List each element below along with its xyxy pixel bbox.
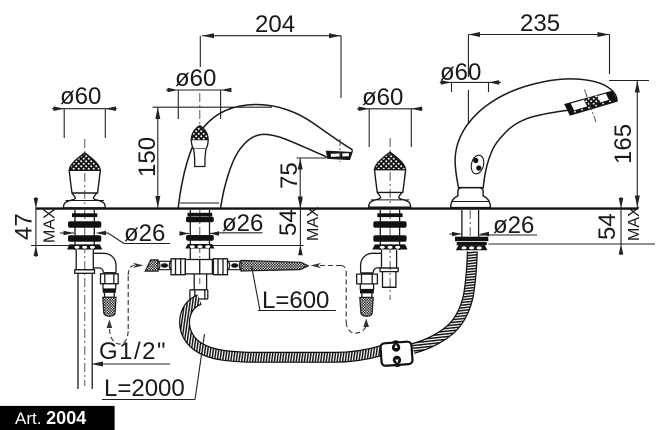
dimension 150 — [134, 107, 272, 208]
deck line — [36, 207, 639, 209]
svg-text:235: 235 — [520, 10, 560, 37]
handle H1 center line — [84, 139, 86, 386]
handle H1 elbow — [93, 253, 116, 272]
dimension 54 MAX right — [489, 197, 656, 255]
dimension 47 MAX — [11, 197, 73, 257]
assembly arrow handle H1 tail — [107, 263, 144, 344]
spout diverter knob — [191, 126, 208, 167]
hand shower base — [451, 188, 491, 208]
dia26 label hand shower — [450, 212, 538, 239]
assembly arrow hose L600 — [311, 263, 370, 333]
svg-text:MAX: MAX — [626, 206, 643, 241]
handle H1 braided tail — [103, 297, 116, 316]
spout bottom outlet tube — [190, 274, 208, 299]
hose weight — [380, 339, 413, 368]
handle H2 shank stack — [372, 210, 407, 250]
svg-text:MAX: MAX — [305, 206, 322, 241]
spout tee body — [171, 259, 228, 275]
spout shank stack — [185, 210, 214, 260]
svg-text:Art. 2004: Art. 2004 — [15, 408, 86, 428]
handle H1 valve body and supply tube — [75, 250, 95, 389]
handle H2 — [369, 152, 411, 207]
inlet hose stub — [145, 260, 158, 271]
article number box — [0, 406, 115, 430]
dimension 75 — [276, 158, 326, 208]
dimension 235 — [468, 10, 609, 186]
dia26 label handle H1 — [60, 220, 170, 247]
label G1/2 — [91, 338, 170, 367]
handle H2 center line — [389, 138, 391, 300]
dia26 label spout — [180, 210, 264, 237]
handle H2 elbow union nut — [357, 274, 378, 297]
handle H2 braided tail — [360, 298, 373, 317]
hand shower collar ring — [469, 154, 485, 175]
svg-text:MAX: MAX — [42, 208, 59, 243]
svg-text:54: 54 — [275, 209, 302, 236]
svg-text:165: 165 — [610, 124, 637, 164]
svg-text:ø60: ø60 — [175, 65, 216, 92]
svg-text:ø60: ø60 — [60, 83, 101, 110]
svg-text:L=2000: L=2000 — [104, 375, 185, 402]
svg-text:150: 150 — [134, 137, 161, 177]
braided hose L600 — [241, 260, 308, 271]
spout tee left connector — [158, 261, 171, 269]
shower hose L2000 — [185, 252, 473, 358]
dimension 165 — [609, 81, 649, 208]
spout center line — [199, 93, 201, 284]
handle H1 shank stack — [67, 210, 102, 250]
label L600 — [252, 266, 337, 314]
spout body — [178, 104, 352, 207]
svg-text:47: 47 — [11, 213, 38, 240]
svg-text:ø60: ø60 — [362, 84, 403, 111]
dia60 label handle H2 — [357, 84, 423, 147]
dimension 54 MAX center — [212, 198, 322, 255]
hand shower body — [455, 79, 617, 188]
handle H1 — [63, 153, 105, 208]
spout outlet aerator — [325, 139, 352, 162]
dimension 204 — [200, 11, 341, 98]
hand shower center line — [469, 210, 471, 246]
spout tee right connector — [228, 261, 241, 269]
svg-text:204: 204 — [255, 11, 295, 38]
handle H2 elbow — [361, 253, 382, 273]
handle H2 valve body — [380, 250, 398, 287]
hand shower shank — [455, 210, 488, 250]
dia60 label handle H1 — [52, 83, 117, 138]
hand shower spray face — [565, 90, 617, 123]
svg-text:G1/2": G1/2" — [99, 338, 167, 365]
svg-text:54: 54 — [594, 213, 621, 240]
handle H1 elbow union nut — [101, 274, 119, 298]
dia60 label hand shower — [440, 59, 501, 92]
dia60 label spout — [166, 65, 232, 119]
label L2000 — [102, 334, 205, 402]
